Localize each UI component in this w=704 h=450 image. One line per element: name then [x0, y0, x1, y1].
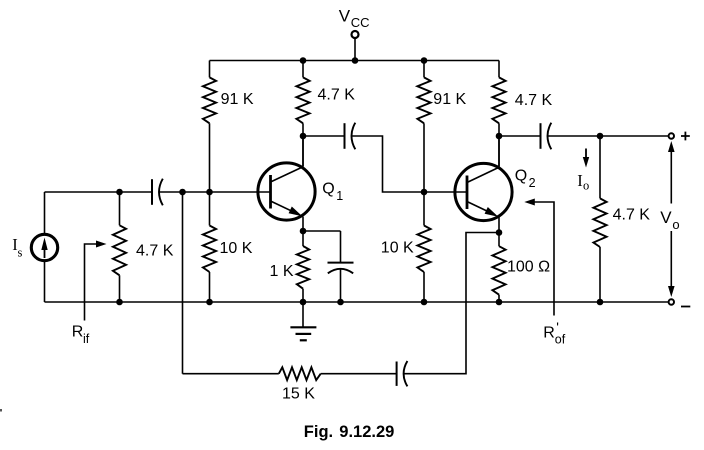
node: feedback tap: [179, 189, 186, 196]
node: Q2 emitter: [496, 229, 503, 236]
wire: C2 to Q2 base: [352, 136, 467, 192]
transistor Q1: [258, 163, 315, 220]
svg-text:Q: Q: [515, 167, 527, 184]
wire: feedback left drop: [182, 192, 184, 374]
node: bottom load resistor: [597, 299, 604, 306]
capacitor C3 (emitter bypass): [340, 231, 342, 263]
capacitor C4 (feedback blocking): [396, 362, 398, 386]
wire: feedback row left: [183, 373, 279, 375]
svg-text:V: V: [660, 208, 672, 227]
svg-text:of: of: [555, 332, 566, 346]
capacitor C2 (interstage coupling): [344, 123, 346, 149]
node: Q1 collector: [300, 133, 307, 140]
wire: C5 to output terminal: [548, 135, 669, 137]
node: bottom 10K col3: [421, 299, 428, 306]
svg-text:s: s: [18, 246, 23, 260]
resistor 4.7 K (Q1 collector load): [302, 61, 304, 78]
resistor 4.7 K (input shunt): [119, 192, 121, 225]
stray mark at left edge: [0, 409, 2, 412]
capacitor C5 (output coupling): [540, 123, 542, 149]
svg-text:o: o: [583, 178, 589, 192]
VCC terminal: [354, 39, 356, 61]
wire: 15K to C4: [321, 373, 397, 375]
svg-text:if: if: [83, 332, 90, 346]
pointer arrow Rif: [85, 244, 98, 321]
voltage arrow Vo: [670, 150, 672, 204]
svg-text:4.7 K: 4.7 K: [136, 243, 174, 260]
resistor 91 K (first-stage upper bias): [209, 61, 211, 78]
svg-text:CC: CC: [351, 15, 370, 30]
transistor Q2: [455, 163, 512, 220]
svg-text:9.12.29: 9.12.29: [339, 423, 394, 441]
svg-text:10 K: 10 K: [220, 240, 253, 257]
node: ground junction: [300, 299, 307, 306]
svg-text:100 Ω: 100 Ω: [507, 258, 550, 275]
resistor 100 ohm (Q2 emitter): [498, 233, 500, 247]
svg-text:Q: Q: [322, 180, 334, 197]
svg-text:R: R: [543, 324, 555, 341]
node: bottom 10K col1: [206, 299, 213, 306]
resistor 4.7 K (Q2 collector load): [498, 61, 500, 78]
resistor 10 K (first-stage lower bias): [209, 192, 211, 226]
svg-text:91 K: 91 K: [221, 91, 254, 108]
resistor 15 K (feedback): [279, 367, 321, 380]
svg-text:4.7 K: 4.7 K: [318, 87, 356, 104]
node: Q2 base / bias divider: [421, 189, 428, 196]
current source Is: [44, 192, 46, 234]
svg-text:I: I: [577, 171, 583, 190]
terminal: output -: [669, 299, 674, 304]
node: Q2 collector: [496, 133, 503, 140]
pointer arrow R'of: [533, 202, 554, 316]
capacitor C1 (input coupling): [151, 179, 153, 205]
node: rail dot col3: [421, 57, 428, 64]
wire: C4 to Q2 emitter: [404, 233, 499, 374]
node: output resistor top: [597, 133, 604, 140]
node: rail dot col2: [300, 57, 307, 64]
svg-text:2: 2: [529, 176, 536, 190]
label -: [681, 306, 690, 308]
node: Q1 base / bias divider: [206, 189, 213, 196]
svg-text:R: R: [72, 324, 84, 341]
ground: [302, 302, 304, 327]
svg-text:4.7 K: 4.7 K: [613, 207, 651, 224]
wire: VCC top rail: [210, 60, 500, 62]
wire: C1 to Q1 base: [159, 191, 270, 193]
wire: input node row (Is to C1): [45, 191, 153, 193]
svg-text:V: V: [339, 6, 351, 25]
svg-text:1 K: 1 K: [270, 263, 294, 280]
resistor 1 K (Q1 emitter): [302, 231, 304, 246]
node: bottom input 4.7K: [116, 299, 123, 306]
wire: Q2 collector to C5: [499, 135, 541, 137]
wire: Q1 collector to C2: [303, 135, 345, 137]
node: input 4.7K top: [116, 189, 123, 196]
wire: bottom rail: [45, 301, 669, 303]
svg-text:10 K: 10 K: [381, 240, 414, 257]
svg-text:15 K: 15 K: [282, 385, 315, 402]
resistor 4.7 K (load): [599, 136, 601, 198]
node: bypass cap bottom: [337, 299, 344, 306]
node: bottom 100 ohm: [496, 299, 503, 306]
current arrow Io: [585, 149, 587, 160]
node: rail dot VCC: [352, 57, 359, 64]
node: Q1 emitter: [300, 228, 307, 235]
svg-text:o: o: [672, 217, 679, 232]
resistor 91 K (second-stage upper bias): [423, 61, 425, 78]
wire: emitter to bypass cap: [303, 230, 341, 232]
svg-text:Fig.: Fig.: [304, 423, 333, 441]
resistor 10 K (second-stage lower bias): [423, 192, 425, 226]
svg-text:1: 1: [336, 189, 343, 203]
terminal: output +: [669, 133, 674, 138]
label +: [681, 132, 690, 141]
svg-text:91 K: 91 K: [433, 91, 466, 108]
svg-text:4.7 K: 4.7 K: [515, 92, 553, 109]
